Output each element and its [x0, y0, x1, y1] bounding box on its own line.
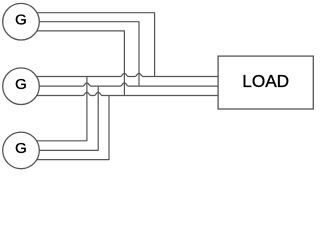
- generator G1: [3, 3, 40, 40]
- wire G1 phase C (to bus C): [21, 31, 124, 96]
- wire G3 phase B (up to bus B): [21, 86, 98, 150]
- wire G3 phase C (up to bus C): [21, 96, 109, 160]
- wire G1 phase B (to bus B): [21, 22, 139, 86]
- svg-text:G: G: [15, 140, 27, 157]
- wire bus phase C (hops over wires at x=86.9 and x=98.2): [21, 92, 218, 95]
- wire G1 phase A (top, to bus A): [21, 13, 155, 77]
- wire G3 phase A (bottom, up to bus A): [21, 77, 87, 141]
- svg-text:G: G: [15, 76, 27, 93]
- wire bus phase A (hops over wires at x=124.4 and x=139): [21, 73, 218, 76]
- svg-text:G: G: [15, 11, 27, 28]
- generator G2: [3, 68, 40, 105]
- generator G3: [3, 132, 40, 169]
- svg-text:LOAD: LOAD: [242, 71, 289, 91]
- load box U1: [218, 56, 313, 109]
- wire bus phase B (hops over wires at x=86.9 and x=124.4): [21, 83, 218, 86]
